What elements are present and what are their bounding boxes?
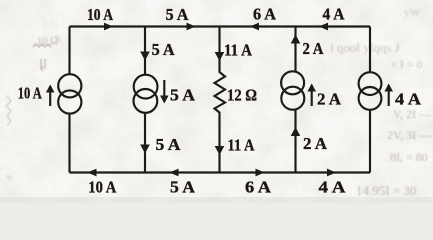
svg-text:10 A: 10 A [87,5,113,24]
svg-text:4 A: 4 A [395,90,421,109]
arrow S3 current 2A [311,85,313,106]
current source S1 [58,74,81,97]
arrowhead bottom seg3 right 6A [256,169,265,177]
edge shading [0,197,433,203]
arrowhead top seg1 right 10A [104,23,113,31]
svg-text:yW: yW [404,7,421,19]
current source S3 [281,71,304,94]
wire branch5 top [369,27,371,73]
svg-text:6 A: 6 A [253,5,276,24]
arrowhead resistor top down 11A [215,52,225,61]
arrow S1 current 10A [49,86,51,106]
svg-text:4 A: 4 A [319,177,346,196]
wire bottom rail [70,171,371,173]
arrowhead S4 current up 4A [384,84,393,92]
svg-text:l qool ylqqs J: l qool ylqqs J [330,40,400,55]
wire branch2 top [144,27,146,76]
svg-text:11 A: 11 A [228,136,255,155]
wire branch2 bottom [144,113,146,173]
arrowhead resistor bottom down 11A [215,146,225,155]
wire branch4 top [294,27,296,72]
arrowhead bottom seg1 left 10A [88,169,97,177]
arrowhead top seg2 right 5A [187,23,196,31]
arrowhead top seg4 left 4A [319,23,328,31]
svg-text:2 A: 2 A [317,90,341,109]
current source S2 [134,75,158,99]
svg-text:6 A: 6 A [245,177,271,196]
wire branch1 top [68,27,70,75]
svg-text:11 A: 11 A [224,40,252,59]
svg-text:5 A: 5 A [156,135,181,154]
arrowhead branch4 bottom up 2A [291,127,301,136]
wire branch5 bottom [369,110,371,173]
svg-text:12 Ω: 12 Ω [227,85,257,104]
arrow S2 current 5A [163,80,165,101]
svg-text:2V, 3I — 80: 2V, 3I — 80 [387,128,433,142]
svg-text:V, 2I — 8: V, 2I — 8 [393,107,433,121]
arrowhead branch2 bottom down 5A [140,145,150,154]
arrowhead top seg3 left 6A [250,23,259,31]
main circuit [50,27,389,173]
svg-text:5 A: 5 A [170,177,195,196]
svg-text:10 A: 10 A [18,84,42,103]
svg-text:2 A: 2 A [303,39,324,58]
arrowhead S1 current up 10A [46,85,55,93]
arrowhead bottom seg4 right 4A [327,169,336,177]
svg-text:14.95I = 30: 14.95I = 30 [356,183,416,198]
svg-text:+ I = 0: + I = 0 [390,57,423,71]
current source S4 [359,72,382,95]
svg-text:2 A: 2 A [303,134,327,153]
svg-text:5 A: 5 A [170,86,195,105]
ghost bleed-through text (faint) [37,7,433,198]
arrowhead bottom seg2 left 5A [170,169,179,177]
svg-text:5 A: 5 A [152,40,175,59]
svg-text:10 A: 10 A [88,177,116,196]
wire top rail [70,25,371,27]
resistor R 12ohm [215,27,226,173]
arrowhead branch2 top down 5A [140,52,150,61]
arrowhead S3 current up 2A [307,84,316,92]
wire branch4 bottom [294,110,296,173]
svg-text:4 A: 4 A [323,5,345,24]
svg-text:Β: Β [55,34,61,44]
arrowhead branch4 top up 2A [291,35,301,44]
svg-text:8I, = 80: 8I, = 80 [390,150,428,164]
wire branch1 bottom [68,113,70,172]
svg-text:5 A: 5 A [166,5,189,24]
arrow S4 current 4A [388,85,390,106]
arrowhead S2 current down 5A [160,96,169,104]
